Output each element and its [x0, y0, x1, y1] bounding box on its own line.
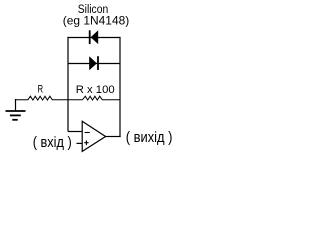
- svg-text:R: R: [38, 84, 44, 96]
- ground bar 1: [6, 110, 26, 112]
- wire right vertical: [119, 37, 121, 137]
- op-amp U1 triangle: [82, 121, 105, 151]
- wire top horizontal (diode D1 branch): [68, 37, 120, 39]
- diode D2 triangle (points right): [89, 56, 97, 70]
- op-amp plus sign: [84, 140, 88, 145]
- ground bar 3: [12, 119, 17, 121]
- wire bottom horizontal with resistor R zigzag: [16, 96, 83, 100]
- op-amp minus sign: [85, 132, 90, 134]
- wire inverting-input stub: [68, 131, 82, 133]
- diode D1 triangle (points left): [91, 30, 99, 44]
- svg-text:(eg 1N4148): (eg 1N4148): [63, 13, 130, 27]
- svg-text:R x 100: R x 100: [76, 84, 115, 96]
- wire middle horizontal (diode D2 branch): [68, 63, 120, 65]
- diode D1 cathode bar: [89, 30, 91, 44]
- diode D2 cathode bar: [97, 56, 99, 70]
- svg-text:( вхід ): ( вхід ): [33, 134, 72, 151]
- wire non-inverting-input stub: [77, 142, 83, 144]
- resistor R x 100 zigzag: [83, 96, 121, 100]
- ground stub: [15, 99, 17, 111]
- svg-text:( вихід ): ( вихід ): [126, 129, 173, 146]
- wire left vertical: [67, 37, 69, 132]
- ground bar 2: [10, 114, 21, 116]
- wire output stub: [106, 136, 121, 138]
